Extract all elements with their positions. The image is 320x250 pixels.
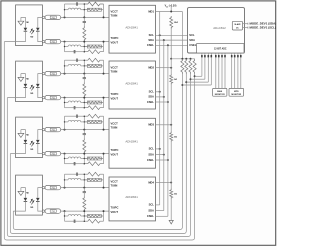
capacitor C4A xyxy=(65,173,77,175)
node SCL bus tap ch2 xyxy=(159,91,161,93)
inductor L2B xyxy=(65,102,69,104)
node bias rail ch2 xyxy=(190,58,192,60)
monitor chain wire to MD2 xyxy=(170,59,172,68)
laser diode LD4 xyxy=(24,198,28,201)
junction dots bottom section ch1 xyxy=(64,46,65,47)
svg-text:VOUT: VOUT xyxy=(111,41,119,45)
wire OM3 cathode return xyxy=(10,143,25,153)
wire bottom rail ch4 xyxy=(61,210,109,212)
bias sense resistor RS1 xyxy=(193,59,196,74)
node D4 (bottom rail left) xyxy=(64,210,66,212)
resistor R3C xyxy=(84,114,103,118)
light coupling arrows OM1 xyxy=(30,29,34,34)
wire U2 SCL to bus xyxy=(156,91,160,93)
bias sense resistor RS4 xyxy=(181,59,184,74)
capacitor C1B (mid shunt) xyxy=(83,17,85,21)
capacitor C1C xyxy=(65,51,75,53)
monitor photodiode PD4 xyxy=(36,198,40,201)
laser driver U4 ADN2841 xyxy=(109,177,156,221)
module OM2 pin 1 terminal xyxy=(42,72,44,74)
wire top rail ch1 xyxy=(61,16,109,18)
svg-text:SCL: SCL xyxy=(189,33,195,37)
capacitor C2C xyxy=(65,107,75,109)
node CSEL bus tap ch3 xyxy=(167,159,169,161)
resistor R2F (boxed) xyxy=(87,101,101,104)
wires ADC group1 to bias taps xyxy=(201,57,203,76)
wire ADC tap ch4 xyxy=(182,84,211,86)
node B4 (top rail mid) xyxy=(83,187,85,189)
resistor R3A 75Ω (top, boxed) xyxy=(44,129,46,131)
node F2 (bottom rail right) xyxy=(103,97,105,99)
resistor R20 (MD4 load) xyxy=(170,189,173,200)
svg-text:CSEL: CSEL xyxy=(147,214,155,218)
ground symbol inside OM3 xyxy=(18,133,24,137)
dropper wires bottom section ch1 xyxy=(64,42,66,52)
resistor R1C xyxy=(84,2,103,6)
node B1 (top rail mid) xyxy=(83,16,85,18)
capacitor C3B (mid shunt) xyxy=(83,130,85,134)
resistor R4F (boxed) xyxy=(87,215,101,218)
node C2 (top rail right) xyxy=(103,73,105,75)
resistor R1F (boxed) xyxy=(87,45,101,48)
light coupling arrows OM2 xyxy=(30,85,34,90)
node ADC tap ch2 xyxy=(190,78,192,80)
svg-text:CSEL: CSEL xyxy=(147,158,155,162)
svg-text:CSEL: CSEL xyxy=(147,100,155,104)
node D2 (bottom rail left) xyxy=(64,97,66,99)
monitor photodiode PD2 xyxy=(36,84,40,87)
svg-text:TX/IN: TX/IN xyxy=(111,184,118,188)
resistor R17 10kΩ (VCC to monitor chain) xyxy=(170,16,173,29)
node A3 (top rail left) xyxy=(64,129,66,131)
svg-text:12-BIT ADC: 12-BIT ADC xyxy=(214,47,227,50)
module OM1 pin 2 terminal xyxy=(42,40,44,42)
svg-text:TX/PC: TX/PC xyxy=(111,148,119,152)
resistor R4E (mid shunt) xyxy=(83,196,86,211)
riser wires top section ch3 xyxy=(64,116,66,129)
ground symbol inside OM4 xyxy=(18,191,24,195)
wire U4 SCL to bus xyxy=(156,204,160,206)
junction dots bottom section ch3 xyxy=(64,158,65,159)
return loop wire ch3 xyxy=(10,74,186,234)
wire U3 MD to monitor chain xyxy=(156,124,172,126)
resistor R1B 75Ω (bottom, boxed) xyxy=(44,41,46,43)
laser driver U2 ADN2841 xyxy=(109,61,156,109)
wire OM4 cathode return xyxy=(13,201,25,211)
resistor R1D (boxed) xyxy=(87,8,101,11)
wire bottom rail ch2 xyxy=(61,97,109,99)
riser wires top section ch4 xyxy=(64,174,66,187)
wire U3 CSEL to bus xyxy=(156,159,168,161)
node MD2 junction xyxy=(170,67,172,69)
svg-text:VOUT: VOUT xyxy=(111,153,119,157)
svg-text:SLAVE: SLAVE xyxy=(234,23,241,26)
node D1 (bottom rail left) xyxy=(64,41,66,43)
inductor L4B xyxy=(65,215,69,217)
CSEL bus wire xyxy=(167,45,169,216)
wire top rail ch3 xyxy=(61,129,109,131)
slave I2C port box xyxy=(232,21,242,30)
bias sense resistor RS2 xyxy=(189,59,192,74)
svg-text:MONITOR: MONITOR xyxy=(231,94,241,96)
node E1 (bottom rail mid) xyxy=(83,41,85,43)
module OM1 pin 1 terminal xyxy=(42,16,44,18)
wire OM4 ground to laser anode xyxy=(21,188,26,198)
junction dots top section ch2 xyxy=(64,65,65,66)
wire U2 CSEL to bus xyxy=(156,101,168,103)
svg-text:TX/PC: TX/PC xyxy=(111,36,119,40)
wire U1 CSEL to controller xyxy=(156,44,188,46)
wire U4 SDA to bus xyxy=(156,210,164,212)
resistor R2B 75Ω (bottom, boxed) xyxy=(44,97,46,99)
svg-text:MONITOR: MONITOR xyxy=(215,94,225,96)
svg-text:10kΩ: 10kΩ xyxy=(174,22,179,24)
wire OM2 cathode return xyxy=(7,87,25,97)
ADC pin terminals xyxy=(201,53,203,55)
node A2 (top rail left) xyxy=(64,73,66,75)
laser diode LD3 xyxy=(24,140,28,143)
resistor R1E (mid shunt) xyxy=(83,26,86,42)
wire ADC tap ch2 xyxy=(191,78,205,80)
inductor L2A xyxy=(65,65,69,67)
node E2 (bottom rail mid) xyxy=(83,97,85,99)
MPD monitor box xyxy=(229,88,244,96)
optical module OM4 (TOSA) box xyxy=(16,175,43,215)
wire U4 MD to monitor chain xyxy=(156,182,172,184)
module OM2 pin 2 terminal xyxy=(42,96,44,98)
wire bottom rail ch3 xyxy=(61,153,109,155)
ground arrow (monitor chain end) xyxy=(169,220,173,224)
svg-text:SCL: SCL xyxy=(149,33,155,37)
node SCL bus tap ch1 xyxy=(159,34,161,36)
resistor R1A 75Ω (top, boxed) xyxy=(44,16,46,18)
wire bottom rail ch1 xyxy=(61,41,109,43)
inductor L4A xyxy=(65,179,69,181)
laser driver U1 ADN2841 xyxy=(109,5,156,53)
capacitor C2A xyxy=(65,59,77,61)
wire PD2 bracket to module pins xyxy=(38,74,43,84)
svg-text:ADN2841: ADN2841 xyxy=(125,140,138,144)
junction dots top section ch1 xyxy=(64,9,65,10)
svg-text:BIAS: BIAS xyxy=(217,90,223,93)
node E4 (bottom rail mid) xyxy=(83,210,85,212)
wire top rail ch4 xyxy=(61,187,109,189)
wire VCC to bias rail riser xyxy=(181,12,183,59)
monitor chain wire mid1 xyxy=(170,85,172,125)
node VCC xyxy=(170,11,172,13)
wire U1 SDA to controller xyxy=(156,39,188,41)
svg-text:VCCT: VCCT xyxy=(111,9,119,13)
capacitor C2B (mid shunt) xyxy=(83,74,85,78)
wire U3 SCL to bus xyxy=(156,148,160,150)
wire OM3 ground to laser anode xyxy=(21,130,26,140)
svg-text:ADN2841: ADN2841 xyxy=(125,81,138,85)
svg-text:TX/IN: TX/IN xyxy=(111,126,118,130)
node F3 (bottom rail right) xyxy=(103,153,105,155)
svg-text:SCL: SCL xyxy=(149,90,155,94)
wire ADC tap ch1 xyxy=(195,75,202,77)
junction dots bottom section ch4 xyxy=(64,215,65,216)
resistor R4A 75Ω (top, boxed) xyxy=(44,187,46,189)
wire OM1 cathode return xyxy=(4,31,25,41)
svg-text:VOUT: VOUT xyxy=(111,97,119,101)
capacitor C1A xyxy=(65,3,77,5)
svg-text:MODE_DEV1 (SCL): MODE_DEV1 (SCL) xyxy=(250,26,276,30)
wire U4 CSEL to bus xyxy=(156,215,168,217)
svg-text:MD2: MD2 xyxy=(148,66,154,70)
node MD3 junction xyxy=(170,124,172,126)
resistor R2A 75Ω (top, boxed) xyxy=(44,73,46,75)
wire U1 MD / VCC rail xyxy=(156,11,183,13)
bias monitor box xyxy=(213,88,227,96)
optical module OM2 (TOSA) box xyxy=(16,61,43,102)
wires ADC group3 to MPD monitor xyxy=(231,57,233,88)
svg-text:CSEL: CSEL xyxy=(189,43,197,47)
node SDA bus tap ch3 xyxy=(163,154,165,156)
resistor R3B 75Ω (bottom, boxed) xyxy=(44,153,46,155)
node ADC tap ch3 xyxy=(185,81,187,83)
module OM3 pin 2 terminal xyxy=(42,152,44,154)
bias rail wire xyxy=(171,58,194,60)
resistor R3G xyxy=(84,162,103,166)
light coupling arrows OM4 xyxy=(30,199,34,204)
inductor L3B xyxy=(65,158,69,160)
wire MODE_DEV1 SCL xyxy=(243,27,248,29)
node ADC tap ch1 xyxy=(194,75,196,77)
dropper wires bottom section ch2 xyxy=(64,98,66,108)
laser diode LD2 xyxy=(24,84,28,87)
wire OM2 ground to laser anode xyxy=(21,74,26,84)
monitor photodiode PD3 xyxy=(36,140,40,143)
laser diode LD1 xyxy=(24,28,28,31)
svg-text:SCL: SCL xyxy=(149,147,155,151)
wire ADC tap ch3 xyxy=(186,81,208,83)
wires ADC group2 to bias monitor xyxy=(215,57,217,88)
svg-text:TX/IN: TX/IN xyxy=(111,70,118,74)
svg-text:ADuC812: ADuC812 xyxy=(213,26,226,30)
SCL bus wire xyxy=(159,12,161,205)
module OM4 pin 2 terminal xyxy=(42,210,44,212)
optical module OM3 (TOSA) box xyxy=(16,117,43,158)
resistor R3F (boxed) xyxy=(87,157,101,160)
node bias rail ch4 xyxy=(181,58,183,60)
resistor R4G xyxy=(84,219,103,223)
resistor R1G xyxy=(84,50,103,54)
svg-text:VCCT: VCCT xyxy=(111,180,119,184)
svg-text:ADN2841: ADN2841 xyxy=(125,26,138,30)
wire U2 SDA to bus xyxy=(156,96,164,98)
SDA bus wire xyxy=(163,40,165,211)
svg-text:VCCT: VCCT xyxy=(111,122,119,126)
node bias rail ch3 xyxy=(185,58,187,60)
resistor R3E (mid shunt) xyxy=(83,138,86,154)
node SCL bus tap ch3 xyxy=(159,148,161,150)
inductor L1B xyxy=(65,46,69,48)
inductor L3A xyxy=(65,121,69,123)
monitor chain wire upper xyxy=(170,29,172,59)
node B3 (top rail mid) xyxy=(83,129,85,131)
resistor R4C xyxy=(84,172,103,176)
svg-text:CSEL: CSEL xyxy=(147,43,155,47)
dropper wires bottom section ch4 xyxy=(64,211,66,221)
node C3 (top rail right) xyxy=(103,129,105,131)
return loop wire ch2 xyxy=(7,74,190,237)
svg-text:MPD: MPD xyxy=(234,91,239,93)
riser wires top section ch1 xyxy=(64,4,66,17)
capacitor C3C xyxy=(65,163,75,165)
node C1 (top rail right) xyxy=(103,16,105,18)
node CSEL bus tap ch2 xyxy=(167,101,169,103)
bias sense resistor RS3 xyxy=(185,59,188,74)
svg-text:TX/PC: TX/PC xyxy=(111,92,119,96)
node SDA bus tap ch2 xyxy=(163,96,165,98)
node D3 (bottom rail left) xyxy=(64,153,66,155)
node monitor chain / bias rail xyxy=(170,58,172,60)
node ADC tap ch4 xyxy=(181,84,183,86)
node MD4 junction xyxy=(170,182,172,184)
return loop wire ch1 xyxy=(4,42,194,240)
node CSEL bus tap ch1 xyxy=(167,44,169,46)
node SDA bus tap ch1 xyxy=(163,39,165,41)
resistor R4D (boxed) xyxy=(87,178,101,181)
svg-text:SDA: SDA xyxy=(148,152,154,156)
svg-text:SCL: SCL xyxy=(149,203,155,207)
svg-text:SDA: SDA xyxy=(189,38,195,42)
svg-text:TX/IN: TX/IN xyxy=(111,13,118,17)
wire top rail ch2 xyxy=(61,73,109,75)
node F4 (bottom rail right) xyxy=(103,210,105,212)
wire U1 SCL to controller xyxy=(156,34,188,36)
node F1 (bottom rail right) xyxy=(103,41,105,43)
resistor R19 (MD3 load) xyxy=(170,132,173,143)
svg-text:SDA: SDA xyxy=(148,38,154,42)
inductor L1A xyxy=(65,9,69,11)
junction dots top section ch3 xyxy=(64,121,65,122)
return loop wire ch4 xyxy=(13,74,182,230)
svg-text:VOUT: VOUT xyxy=(111,210,119,214)
junction dots bottom section ch2 xyxy=(64,102,65,103)
light coupling arrows OM3 xyxy=(30,141,34,146)
12-bit ADC block xyxy=(197,44,244,53)
wire PD4 bracket to module pins xyxy=(38,188,43,198)
wire OM1 ground to laser anode xyxy=(21,17,26,27)
riser wires top section ch2 xyxy=(64,60,66,73)
svg-text:MD4: MD4 xyxy=(148,180,154,184)
resistor R2C xyxy=(84,58,103,62)
resistor R18 (MD2 load) xyxy=(170,74,173,85)
capacitor C3A xyxy=(65,115,77,117)
resistor R3D (boxed) xyxy=(87,120,101,123)
wire PD3 bracket to module pins xyxy=(38,130,43,140)
resistor R2D (boxed) xyxy=(87,64,101,67)
wire PD1 bracket to module pins xyxy=(38,17,43,27)
node C4 (top rail right) xyxy=(103,187,105,189)
svg-text:SDA: SDA xyxy=(148,95,154,99)
resistor R2E (mid shunt) xyxy=(83,82,86,98)
module OM4 pin 1 terminal xyxy=(42,186,44,188)
svg-text:MD1: MD1 xyxy=(148,9,154,13)
monitor chain wire mid2 xyxy=(170,142,172,183)
controller U5 box xyxy=(188,8,245,53)
svg-text:SDA: SDA xyxy=(148,208,154,212)
node A1 (top rail left) xyxy=(64,16,66,18)
svg-text:TX/PC: TX/PC xyxy=(111,206,119,210)
wire MODE_DEV1 SDA xyxy=(243,23,248,25)
resistor R4B 75Ω (bottom, boxed) xyxy=(44,210,46,212)
svg-text:ADN2841: ADN2841 xyxy=(125,195,138,199)
capacitor C4B (mid shunt) xyxy=(83,188,85,192)
resistor R2G xyxy=(84,106,103,110)
wire U2 MD to monitor chain xyxy=(156,67,172,69)
monitor chain wire lower xyxy=(170,199,172,220)
junction dots top section ch4 xyxy=(64,179,65,180)
capacitor C4C xyxy=(65,220,75,222)
module OM3 pin 1 terminal xyxy=(42,128,44,130)
ground symbol inside OM2 xyxy=(18,77,24,81)
wire U3 SDA to bus xyxy=(156,154,164,156)
dropper wires bottom section ch3 xyxy=(64,154,66,164)
monitor photodiode PD1 xyxy=(36,28,40,31)
node B2 (top rail mid) xyxy=(83,73,85,75)
laser driver U3 ADN2841 xyxy=(109,118,156,168)
ground symbol inside OM1 xyxy=(18,21,24,25)
node E3 (bottom rail mid) xyxy=(83,153,85,155)
node A4 (top rail left) xyxy=(64,187,66,189)
svg-text:VCCT: VCCT xyxy=(111,66,119,70)
wire VCC stub xyxy=(170,7,172,12)
optical module OM1 (TOSA) box xyxy=(16,5,43,46)
svg-text:MD3: MD3 xyxy=(148,123,154,127)
